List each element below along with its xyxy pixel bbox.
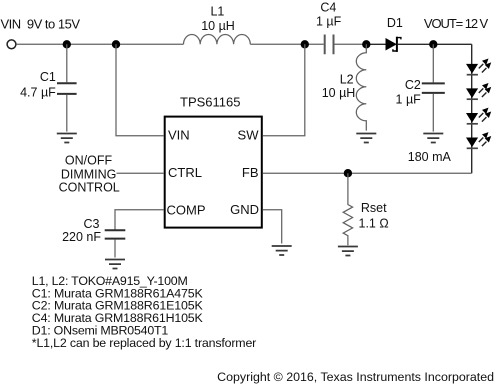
svg-text:10 µH: 10 µH (322, 86, 356, 100)
wire: C3 to ground (114, 240, 116, 258)
LED D2 (466, 59, 491, 75)
svg-text:1 µF: 1 µF (316, 14, 342, 28)
svg-text:1 µF: 1 µF (396, 92, 422, 106)
inductor L2 (356, 44, 366, 130)
wire: input rail to L1 (16, 43, 183, 45)
svg-text:*L1,L2 can be replaced by 1:1: *L1,L2 can be replaced by 1:1 transforme… (32, 336, 256, 350)
svg-text:VOUT= 12 V: VOUT= 12 V (424, 16, 489, 31)
LED D5 (466, 132, 491, 148)
wire: LED string vertical (471, 44, 473, 173)
svg-text:1.1 Ω: 1.1 Ω (359, 216, 389, 230)
note: component list (32, 274, 256, 350)
svg-text:COMP: COMP (167, 203, 206, 218)
inductor L1 (184, 34, 251, 44)
svg-text:C4: C4 (320, 0, 336, 14)
input terminal VIN (7, 40, 16, 49)
LED D4 (466, 108, 491, 124)
ground (C2) (423, 134, 443, 143)
svg-text:ON/OFF: ON/OFF (65, 154, 113, 168)
svg-text:220 nF: 220 nF (62, 230, 101, 244)
wire: GND pin (263, 210, 282, 244)
node: C1 tap (63, 40, 71, 48)
svg-text:CONTROL: CONTROL (59, 181, 120, 195)
svg-text:FB: FB (242, 165, 259, 180)
capacitor C4 (325, 35, 334, 55)
wire: SW pin to rail (263, 44, 305, 136)
svg-text:VIN 9V to 15V: VIN 9V to 15V (1, 16, 81, 31)
svg-text:10 µH: 10 µH (201, 19, 235, 33)
wire: FB line (263, 172, 472, 174)
capacitor C2 (422, 44, 445, 131)
svg-text:4.7 µF: 4.7 µF (20, 86, 56, 100)
ground (C3) (105, 260, 125, 269)
svg-text:C1: C1 (40, 70, 56, 84)
svg-text:Rset: Rset (361, 201, 387, 215)
IC U1 TPS61165 (165, 117, 262, 228)
wire: D1 to LED string (398, 43, 472, 45)
ground (L2) (356, 134, 376, 143)
svg-text:SW: SW (238, 128, 260, 143)
svg-text:180 mA: 180 mA (408, 150, 452, 164)
wire: L1 to C4 (250, 43, 323, 45)
diode D1 (schottky) (386, 37, 401, 52)
LED D3 (466, 83, 491, 99)
node: L2 tap (362, 40, 370, 48)
svg-text:L2: L2 (340, 72, 354, 86)
label ON/OFF DIMMING CONTROL (59, 154, 120, 195)
node: Rset tap (344, 169, 352, 177)
node: SW tap (301, 40, 309, 48)
svg-text:Copyright © 2016, Texas Instru: Copyright © 2016, Texas Instruments Inco… (217, 370, 494, 384)
ground (GND pin) (272, 246, 292, 255)
svg-text:D1: D1 (387, 16, 403, 30)
svg-text:DIMMING: DIMMING (61, 167, 117, 181)
node: VIN pin tap (112, 40, 120, 48)
svg-text:L1: L1 (210, 5, 224, 19)
capacitor C3 (105, 230, 126, 238)
node: VOUT (429, 40, 437, 48)
wire: COMP pin to C3 (115, 210, 164, 230)
svg-text:GND: GND (230, 202, 259, 217)
svg-text:C2: C2 (405, 78, 421, 92)
wire: C4 to D1 (334, 43, 366, 45)
wire: CTRL input (117, 172, 164, 174)
capacitor C1 (57, 44, 77, 131)
svg-text:VIN: VIN (168, 128, 190, 143)
ground (Rset) (338, 247, 358, 256)
svg-text:CTRL: CTRL (168, 165, 202, 180)
wire: VIN tap down and into VIN pin (116, 44, 164, 136)
ground (C1) (57, 134, 77, 143)
svg-text:TPS61165: TPS61165 (180, 95, 240, 110)
resistor Rset (343, 173, 352, 245)
